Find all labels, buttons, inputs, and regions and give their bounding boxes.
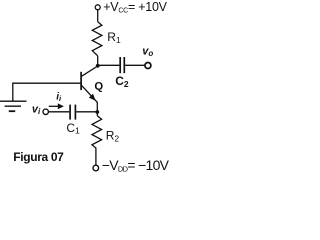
svg-text:−VDD= −10V: −VDD= −10V — [102, 157, 170, 174]
resistor R2 — [92, 116, 102, 149]
wire vi to C1 — [48, 111, 69, 113]
wire collector node to C2 — [98, 64, 120, 66]
wire base to ground — [13, 83, 81, 101]
wire R1 to collector node — [97, 56, 99, 67]
terminal +VCC — [95, 5, 100, 10]
terminal vi — [43, 109, 48, 114]
terminal -VDD — [93, 165, 99, 171]
arrow ii — [49, 103, 64, 109]
node collector junction — [96, 64, 100, 68]
wire VCC to R1 — [97, 10, 99, 22]
capacitor C1 — [70, 105, 75, 120]
svg-text:Figura 07: Figura 07 — [13, 150, 64, 164]
terminal vo — [145, 63, 151, 69]
wire C1 to emitter node — [76, 111, 98, 113]
svg-text:Q: Q — [94, 80, 103, 92]
resistor R1 — [92, 22, 102, 56]
wire R2 to VDD terminal — [95, 148, 97, 165]
svg-text:+VCC= +10V: +VCC= +10V — [103, 0, 167, 14]
wire C2 to vo terminal — [125, 64, 145, 66]
transistor Q — [81, 66, 98, 102]
node emitter junction — [95, 110, 99, 114]
wire emitter to node — [96, 102, 98, 116]
ground — [0, 101, 27, 111]
capacitor C2 — [120, 57, 124, 73]
